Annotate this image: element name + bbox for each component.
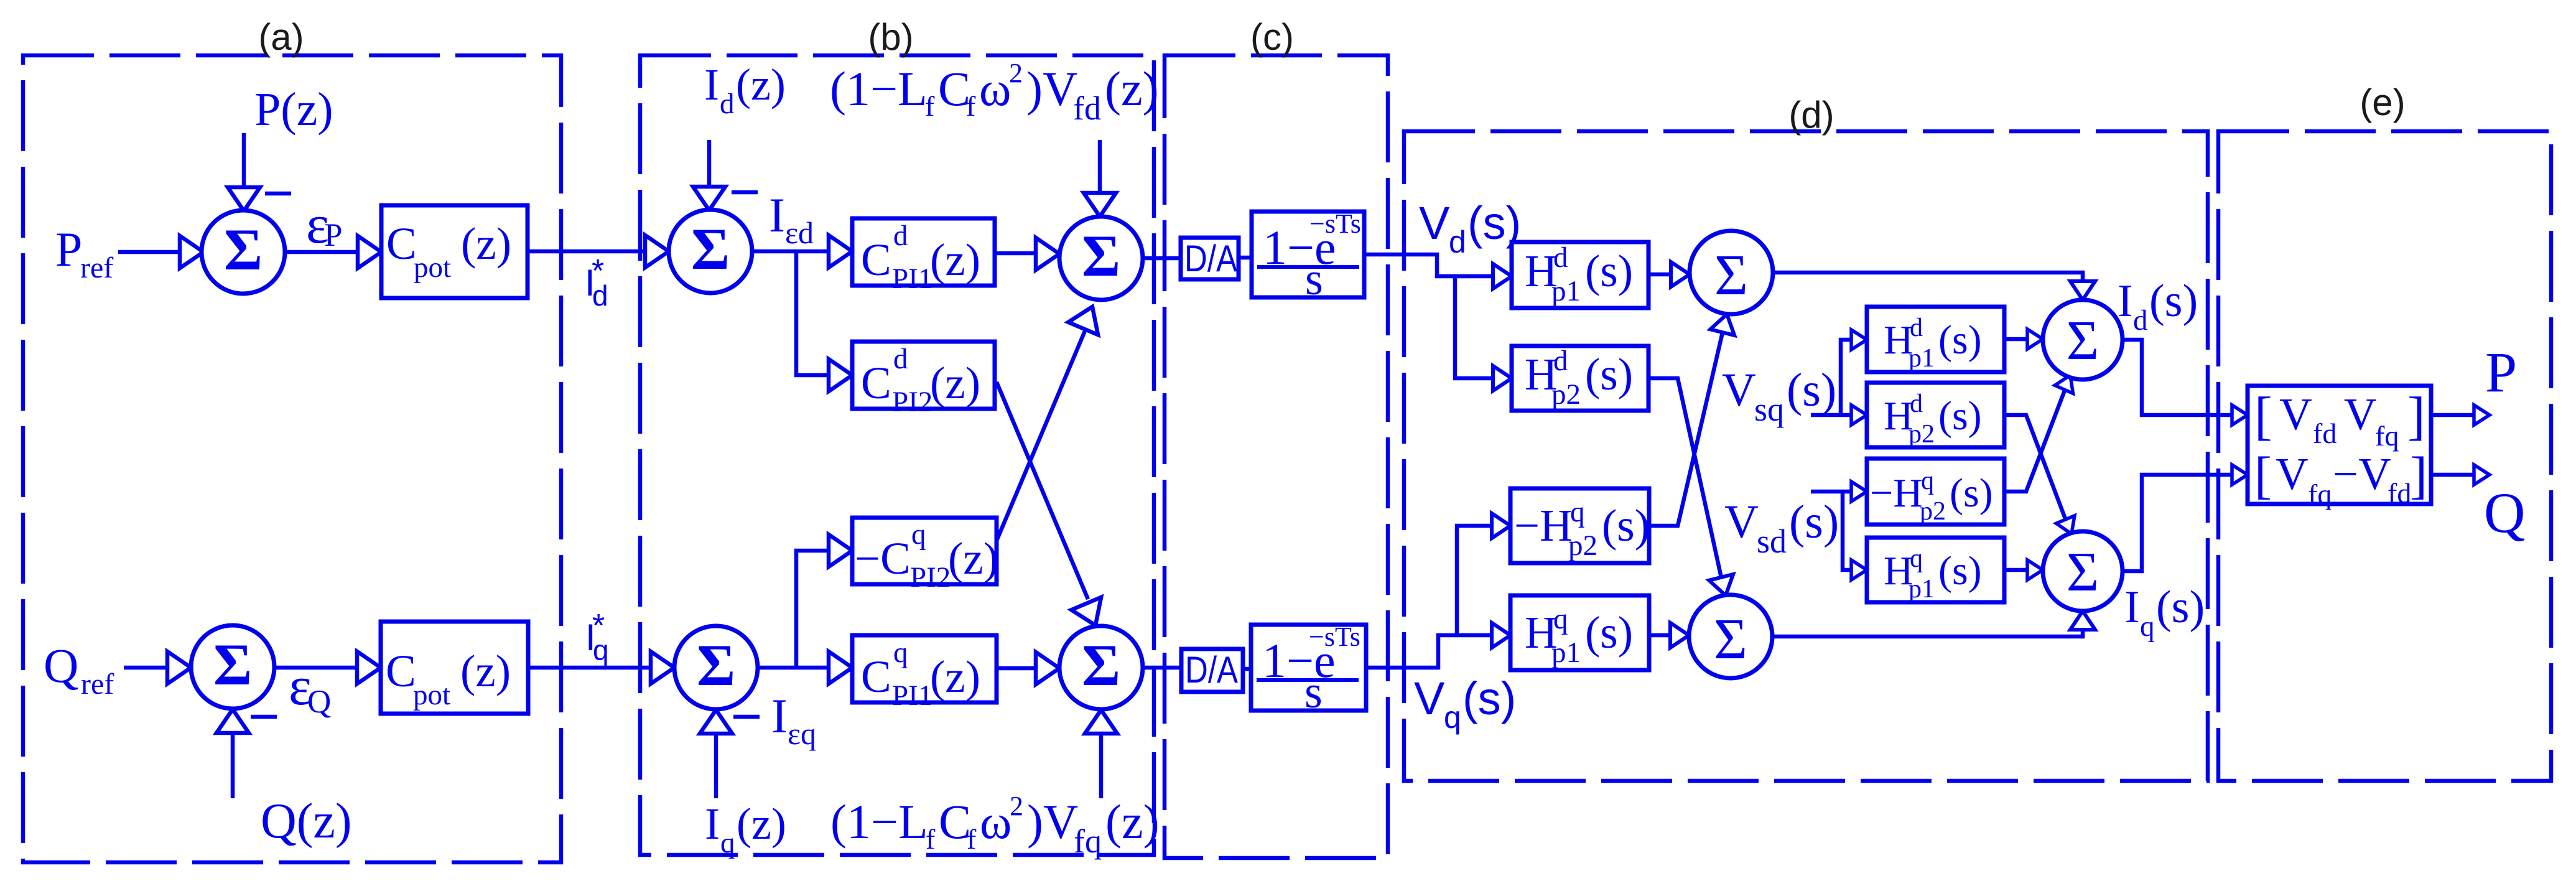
svg-text:d: d — [1910, 389, 1923, 418]
svg-text:(z): (z) — [737, 799, 786, 849]
svg-text:s: s — [1305, 254, 1323, 305]
svg-text:p1: p1 — [1909, 344, 1935, 373]
label I_d(s) — [2118, 276, 2198, 337]
label I_q(s) — [2124, 582, 2205, 643]
svg-text:ω: ω — [979, 62, 1011, 116]
svg-text:(c): (c) — [1250, 16, 1294, 58]
svg-text:P: P — [2485, 340, 2517, 404]
block ZOH lower (1-e^-sTs)/s — [1251, 622, 1366, 718]
svg-text:q: q — [893, 637, 908, 669]
svg-text:εq: εq — [788, 716, 816, 751]
svg-text:−sTs: −sTs — [1309, 622, 1360, 652]
svg-text:Σ: Σ — [213, 632, 252, 697]
block -H_p2^q(s) first stage — [1510, 488, 1650, 563]
wire sum D2 to sum D4 bottom — [1772, 611, 2095, 637]
svg-text:(1−L: (1−L — [830, 62, 928, 116]
svg-text:(b): (b) — [868, 16, 913, 58]
svg-text:Q: Q — [44, 638, 78, 692]
wire I_d(z) down into sum B1 — [693, 140, 725, 210]
svg-text:C: C — [386, 646, 416, 696]
wire P_ref to sum A1 — [118, 236, 203, 268]
svg-text:(s): (s) — [1585, 349, 1633, 399]
wire matrix output Q — [2431, 465, 2490, 485]
svg-text:d: d — [720, 88, 735, 120]
summing junction D2 — [1689, 595, 1772, 678]
svg-text:[: [ — [2254, 447, 2272, 505]
label (1-LfCfw2)V_fq(z) — [830, 791, 1160, 860]
minus sign at B1 top input — [732, 190, 758, 195]
svg-text:f: f — [925, 90, 935, 122]
svg-text:fd: fd — [2313, 417, 2337, 449]
block -H_p2^q(s) second stage — [1867, 459, 2004, 526]
svg-text:Σ: Σ — [1082, 223, 1120, 289]
svg-text:Σ: Σ — [224, 217, 263, 282]
svg-text:Σ: Σ — [1082, 632, 1120, 698]
wire sum D1 to sum D3 top — [1773, 273, 2095, 300]
label (1-LfCfw2)V_fd(z) — [830, 58, 1159, 127]
dashed box section (b) — [640, 55, 1154, 855]
svg-text:q: q — [2140, 610, 2155, 643]
svg-text:−sTs: −sTs — [1309, 208, 1361, 239]
svg-text:(z): (z) — [930, 358, 980, 408]
svg-text:Q: Q — [2484, 481, 2525, 544]
block H_p2^d(s) first stage — [1512, 345, 1648, 411]
label I_q(z) — [705, 799, 786, 859]
block D/A upper — [1181, 238, 1239, 279]
svg-text:Σ: Σ — [2067, 310, 2099, 371]
wire H_p2^d second diagonal down to sum D4 — [2004, 415, 2081, 538]
label Q_ref — [44, 638, 114, 701]
svg-text:(z): (z) — [930, 235, 980, 285]
wire sum D3 to matrix block row 1 — [2123, 340, 2248, 425]
summing junction D3 — [2043, 300, 2123, 380]
svg-text:(s): (s) — [1938, 548, 1982, 594]
minus sign at B2 bottom input — [733, 715, 760, 719]
dashed box section (c) — [1165, 55, 1388, 858]
summing junction A1 — [202, 210, 285, 294]
svg-text:ω: ω — [980, 795, 1011, 849]
svg-text:p1: p1 — [1551, 637, 1581, 669]
wire H_p1^q to sum D2 — [1649, 623, 1689, 648]
block C_PI2^d(z) — [852, 342, 995, 418]
svg-text:PI1: PI1 — [892, 263, 932, 295]
wire D/A upper to ZOH upper — [1239, 256, 1252, 260]
dashed box section (d) — [1404, 131, 2208, 781]
wire H_p2^d diagonal down to sum D2 — [1648, 378, 1737, 599]
svg-text:fd: fd — [2388, 477, 2411, 509]
svg-text:q: q — [1570, 496, 1585, 528]
svg-text:pot: pot — [414, 251, 451, 284]
label I_d(z) — [704, 60, 786, 120]
wire sum A1 to C_pot(z) upper — [285, 236, 381, 268]
wire H_p1^d second to sum D3 — [2004, 329, 2043, 349]
summing junction B1 — [669, 210, 752, 293]
svg-text:(s): (s) — [1938, 317, 1982, 363]
svg-text:(s): (s) — [1585, 246, 1633, 296]
svg-text:(z): (z) — [1105, 795, 1160, 849]
svg-text:(s): (s) — [1950, 470, 1993, 516]
svg-text:f: f — [967, 823, 977, 855]
label V_d(s) — [1419, 197, 1521, 259]
label I*_q — [585, 608, 609, 666]
svg-text:V: V — [2279, 389, 2312, 439]
svg-text:q: q — [911, 518, 926, 551]
svg-text:(z): (z) — [460, 646, 511, 696]
wire V_fd(z) down into sum B3 — [1084, 140, 1116, 217]
svg-text:εd: εd — [785, 215, 814, 250]
block D/A lower — [1181, 649, 1243, 692]
wire -H_p2^q diagonal up to sum D1 — [1649, 311, 1739, 526]
wire -H_p2^q second diagonal up to sum D3 — [2004, 371, 2080, 492]
svg-text:p2: p2 — [1551, 378, 1581, 411]
summing junction B4 — [1059, 626, 1143, 709]
svg-text:−V: −V — [2333, 449, 2391, 499]
svg-text:V: V — [1722, 364, 1756, 416]
svg-text:V: V — [1414, 673, 1445, 724]
svg-text:C: C — [861, 235, 891, 285]
label epsilon_P — [306, 195, 342, 255]
svg-text:(s): (s) — [1787, 364, 1836, 416]
label V_sq(s) — [1722, 364, 1836, 428]
svg-text:fq: fq — [2375, 420, 2399, 452]
wire V_sq(s) to H_p2^d second stage — [1811, 405, 1867, 425]
svg-text:D/A: D/A — [1185, 649, 1238, 691]
wire sum B1 to C_PI1^d with branch node — [752, 235, 852, 268]
wire V_q branch up to -H_p2^q — [1457, 513, 1510, 635]
svg-text:(z): (z) — [930, 651, 980, 702]
wire -C_PI2^q diagonal up to sum B3 — [997, 301, 1107, 541]
svg-text:PI1: PI1 — [892, 679, 932, 712]
wire sum B2 to C_PI1^q with branch node — [759, 651, 852, 684]
svg-text:Σ: Σ — [697, 632, 735, 698]
dashed box section (e) — [2218, 131, 2551, 781]
svg-text:d: d — [1910, 314, 1923, 342]
svg-text:P: P — [324, 217, 342, 253]
svg-text:PI2: PI2 — [910, 561, 951, 594]
svg-text:(d): (d) — [1788, 94, 1834, 136]
svg-text:C: C — [861, 651, 891, 702]
svg-text:(z): (z) — [948, 533, 998, 584]
svg-text:I: I — [769, 188, 785, 242]
svg-text:(z): (z) — [1105, 62, 1159, 116]
svg-text:Q: Q — [307, 684, 331, 720]
svg-text:(s): (s) — [2156, 582, 2205, 633]
svg-text:I: I — [704, 60, 719, 110]
wire C_PI2^d diagonal down to sum B4 — [997, 382, 1110, 632]
svg-text:V: V — [1724, 496, 1759, 548]
svg-text:q: q — [593, 634, 609, 666]
svg-text:]: ] — [2407, 386, 2425, 445]
svg-text:]: ] — [2410, 447, 2427, 505]
block C_pot(z) upper — [381, 205, 528, 298]
svg-text:fq: fq — [1074, 823, 1102, 860]
svg-text:sd: sd — [1757, 523, 1787, 560]
wire ZOH lower output V_q(s) to H_p1^q — [1366, 623, 1510, 668]
wire sum D4 to matrix block row 2 — [2123, 465, 2248, 571]
block H_p1^d(s) second stage — [1867, 307, 2004, 373]
svg-text:−C: −C — [855, 533, 911, 584]
label I_epsilon-d — [769, 188, 814, 250]
svg-text:p1: p1 — [1909, 575, 1935, 604]
svg-text:(z): (z) — [736, 60, 786, 110]
label I*_d — [585, 253, 608, 312]
summing junction D4 — [2043, 531, 2123, 611]
svg-text:[: [ — [2254, 386, 2272, 445]
svg-text:ref: ref — [80, 251, 113, 284]
svg-text:2: 2 — [1009, 58, 1023, 88]
summing junction B2 — [674, 626, 758, 709]
minus sign at A1 top input — [265, 192, 291, 196]
svg-text:Σ: Σ — [691, 216, 730, 282]
wire branch up to -C_PI2^q — [796, 534, 852, 668]
svg-text:V: V — [2344, 389, 2377, 439]
svg-text:s: s — [1304, 667, 1323, 718]
svg-text:Σ: Σ — [2067, 541, 2099, 603]
svg-text:(s): (s) — [1938, 393, 1982, 439]
label P_ref — [55, 222, 113, 284]
svg-text:(s): (s) — [1789, 496, 1839, 548]
svg-text:p2: p2 — [1920, 497, 1946, 526]
wire V_d branch down to H_p2^d — [1455, 276, 1512, 391]
block H_p1^q(s) second stage — [1867, 538, 2004, 604]
svg-text:pot: pot — [413, 679, 450, 711]
label epsilon_Q — [289, 656, 331, 720]
svg-text:fd: fd — [1073, 90, 1101, 127]
wire V_sq branch up to H_p1^d second stage — [1841, 330, 1867, 415]
wire sum B3 to D/A upper — [1143, 256, 1181, 261]
svg-text:sq: sq — [1754, 391, 1784, 428]
svg-text:d: d — [893, 343, 908, 375]
svg-text:f: f — [926, 823, 936, 855]
svg-text:)V: )V — [1027, 795, 1078, 849]
svg-text:(1−L: (1−L — [830, 795, 928, 849]
svg-text:(s): (s) — [2149, 276, 2198, 327]
svg-text:p2: p2 — [1568, 529, 1597, 562]
block H_p2^d(s) second stage — [1867, 383, 2004, 449]
svg-text:C: C — [386, 218, 417, 269]
wire V_sd(s) to -H_p2^q second stage — [1811, 482, 1867, 501]
minus sign at A2 bottom input — [251, 715, 277, 719]
svg-text:(s): (s) — [1602, 500, 1650, 551]
block -C_PI2^q(z) — [852, 518, 998, 594]
svg-text:Σ: Σ — [1714, 607, 1747, 671]
svg-text:I: I — [2118, 276, 2133, 327]
svg-text:Σ: Σ — [1714, 243, 1748, 307]
wire Q(z) up into sum A2 — [216, 709, 249, 798]
svg-text:q: q — [1553, 603, 1568, 635]
wire branch down to C_PI2^d — [796, 251, 852, 391]
svg-text:(s): (s) — [1462, 673, 1516, 724]
svg-text:C: C — [861, 358, 891, 408]
wire C_PI1^d to sum B3 — [995, 238, 1059, 270]
svg-text:q: q — [1921, 467, 1934, 495]
label I_epsilon-q — [771, 689, 816, 751]
svg-text:−H: −H — [1514, 500, 1573, 551]
summing junction D1 — [1690, 231, 1773, 314]
svg-text:fq: fq — [2308, 478, 2332, 510]
block ZOH upper (1-e^-sTs)/s — [1252, 208, 1364, 305]
svg-text:V: V — [1419, 197, 1450, 249]
svg-text:P(z): P(z) — [254, 83, 333, 136]
wire sum B4 to D/A lower — [1143, 666, 1181, 670]
svg-text:d: d — [1553, 241, 1568, 274]
wire V_fq(z) up into sum B4 — [1085, 710, 1117, 798]
summing junction B3 — [1059, 217, 1143, 300]
label V_q(s) — [1414, 673, 1516, 735]
summing junction A2 — [191, 625, 274, 709]
wire I_q(z) up into sum B2 — [700, 710, 732, 798]
svg-text:d: d — [1449, 225, 1466, 259]
svg-text:I: I — [2124, 582, 2140, 633]
wire sum A2 to C_pot(z) lower — [274, 651, 381, 684]
wire C_pot upper to sum B1, node I*_d — [528, 235, 669, 268]
svg-text:2: 2 — [1010, 791, 1023, 821]
wire C_PI1^q to sum B4 — [997, 652, 1059, 684]
svg-text:d: d — [2133, 304, 2148, 337]
block C_PI1^q(z) — [852, 635, 997, 712]
svg-text:d: d — [893, 220, 908, 252]
svg-text:(e): (e) — [2360, 82, 2405, 123]
svg-text:I: I — [705, 799, 720, 849]
block C_PI1^d(z) — [852, 218, 995, 295]
svg-text:q: q — [1910, 544, 1923, 573]
svg-text:p2: p2 — [1909, 420, 1935, 449]
block H_p1^q(s) first stage — [1510, 595, 1649, 670]
svg-text:V: V — [2276, 449, 2309, 499]
label V_sd(s) — [1724, 496, 1839, 560]
wire H_p1^d to sum D1 — [1648, 262, 1690, 287]
svg-text:q: q — [720, 827, 735, 859]
dashed box section (a) — [23, 55, 561, 862]
svg-text:(s): (s) — [1585, 607, 1633, 658]
svg-text:−H: −H — [1870, 470, 1923, 516]
block C_pot(z) lower — [381, 622, 528, 714]
svg-text:f: f — [966, 90, 976, 122]
block H_p1^d(s) first stage — [1512, 241, 1648, 308]
svg-text:)V: )V — [1026, 62, 1077, 116]
svg-text:Q(z): Q(z) — [261, 794, 352, 849]
wire Q_ref to sum A2 — [124, 651, 191, 684]
wire V_sd branch down to H_p1^q second stage — [1843, 492, 1867, 580]
svg-text:p1: p1 — [1551, 275, 1581, 307]
svg-text:(a): (a) — [258, 16, 304, 58]
svg-text:(z): (z) — [461, 218, 511, 269]
wire P(z) down into sum A1 — [228, 133, 260, 211]
svg-text:P: P — [55, 222, 82, 276]
svg-text:I: I — [771, 689, 788, 743]
svg-text:d: d — [592, 279, 608, 312]
wire matrix output P — [2431, 405, 2490, 425]
svg-text:q: q — [1444, 700, 1461, 735]
wire H_p1^q second to sum D4 — [2004, 560, 2043, 580]
wire D/A lower to ZOH lower — [1243, 667, 1251, 671]
wire C_pot lower to sum B2, node I*_q — [528, 651, 674, 684]
svg-text:ref: ref — [81, 668, 114, 701]
wire ZOH upper output V_d(s) to H_p1^d — [1364, 254, 1512, 289]
block power matrix [Vfd Vfq; Vfq -Vfd] — [2248, 386, 2431, 510]
svg-text:PI2: PI2 — [892, 386, 932, 418]
svg-text:d: d — [1553, 345, 1568, 377]
svg-text:D/A: D/A — [1184, 238, 1237, 279]
